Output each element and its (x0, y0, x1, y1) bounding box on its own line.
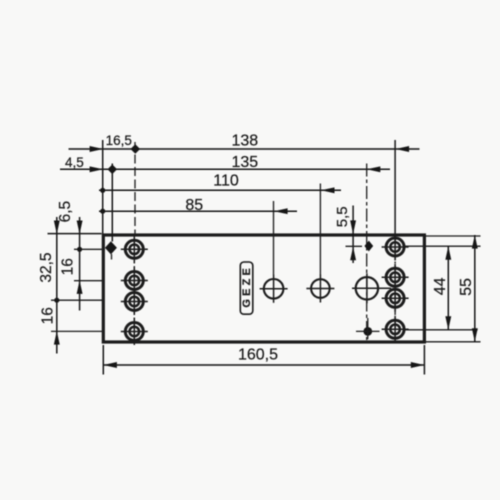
svg-text:85: 85 (185, 197, 203, 214)
dimension 5,5 vertical line x=353.1 (352, 206, 354, 264)
hole L3 (121, 288, 148, 315)
left extension row 3 (y=300.2) (51, 299, 102, 301)
dimension line 44 x=448.3 (447, 246, 449, 330)
arrow down tip row4 on 44 (445, 316, 451, 330)
left extension line plate top (y=233.6) (48, 233, 102, 235)
arrow left at x=395.5 on line 1 (396, 146, 410, 152)
hole R1 (382, 234, 409, 261)
dimension line 1 (16,5 / 138) y=149 (69, 148, 420, 150)
marker diamond hinge axis on line 2 (107, 164, 117, 174)
svg-text:44: 44 (432, 277, 449, 295)
dimension line A (32,5 / 16) x=56.8 (56, 217, 58, 354)
svg-text:16: 16 (59, 258, 76, 275)
extension line circle C1 (x=273.5) (273, 201, 275, 275)
circle C2 (306, 275, 334, 303)
right extension row 1 (y=246.2) (405, 245, 481, 247)
arrow up tip row1 on 44 (445, 246, 451, 260)
circle C3 large (352, 273, 391, 303)
arrow left at x=320.4 on line 3 (321, 187, 335, 193)
hinge diamond left centerline below (111, 254, 113, 260)
extension line hole column right (x=395.1) (394, 140, 396, 234)
marker dot plate edge on line 3 (100, 188, 105, 193)
svg-text:GEZE: GEZE (241, 265, 253, 308)
arrow left at x=273.5 on line 4 (274, 208, 288, 214)
arrow up tip at row4 on line A (54, 331, 60, 345)
arrow left tip at x=103.3 on 160,5 (103, 362, 117, 368)
GEZE logo (240, 262, 253, 314)
dimension line B (6,5 / 16) x=79.6 (79, 217, 81, 311)
right extension plate top (y=236) (426, 235, 481, 237)
arrow right at x=102.7 on line 1 (90, 146, 104, 152)
hole L4 (121, 318, 148, 345)
svg-text:160,5: 160,5 (238, 347, 278, 364)
extension row1 left of diamond R (346, 245, 363, 247)
extension line circle C2 (x=320.4) (319, 184, 321, 276)
arrow down tip at plate top on line A (54, 221, 60, 235)
arrow right tip at x=424.4 on 160,5 (411, 362, 425, 368)
arrow right at x=102.7 on line 2 (90, 166, 104, 172)
svg-text:110: 110 (213, 173, 239, 190)
svg-text:16,5: 16,5 (106, 133, 132, 148)
marker dot plate edge on line 4 (100, 209, 105, 214)
left extension row 4 (y=331.4) (51, 330, 102, 332)
dimension line 3 (110) y=190.3 (99, 189, 341, 191)
centerline hole column 1 (x=135) (134, 142, 136, 234)
arrow down tip at plate top on 5,5 (350, 220, 356, 234)
svg-text:16: 16 (39, 307, 56, 324)
svg-text:135: 135 (231, 154, 258, 171)
arrow up tip at row1 on 5,5 (350, 247, 356, 261)
arrow down tip plate bottom on 55 (472, 328, 478, 342)
bottom extension left edge (x=103.3) (102, 345, 104, 375)
extension line plate left edge (top, x=102.7) (102, 140, 104, 234)
svg-text:138: 138 (231, 133, 258, 150)
hinge diamond left (105, 241, 117, 254)
svg-text:55: 55 (458, 278, 475, 296)
bottom extension right edge (x=424.4) (423, 345, 425, 375)
hole L1 (121, 236, 148, 263)
marker dot row3 on line A (54, 298, 59, 303)
dimension line 2 (4,5 / 135) y=169.3 (60, 168, 390, 170)
dot bottom right column (356, 318, 380, 339)
left extension row 1 (y=249.3) (74, 248, 105, 250)
arrow left at x=366.7 on line 2 (367, 166, 381, 172)
hole R3 (382, 285, 409, 312)
centerline dot column (x=366.7) (366, 164, 368, 341)
arrow up tip at row2 on line B (77, 280, 83, 294)
circle C1 (260, 275, 288, 303)
left extension row 2 (y=280.7) (74, 280, 102, 282)
plate outline (103, 235, 424, 342)
marker diamond hole column 1 on line 1 (130, 144, 140, 154)
right extension row 4 (y=329.8) (404, 329, 478, 331)
svg-text:5,5: 5,5 (334, 206, 351, 227)
centerline hole column right inside plate (394, 238, 396, 338)
arrow down tip at plate top on line B (77, 221, 83, 235)
marker dot row1 on line B (77, 247, 82, 252)
hole R2 (382, 264, 409, 291)
extension line hinge axis (x=112.3) (111, 164, 113, 242)
centerline hole column 1 inside plate (133, 238, 135, 340)
svg-text:6,5: 6,5 (57, 201, 74, 223)
svg-text:4,5: 4,5 (65, 155, 84, 170)
right extension plate bottom (y=341.8) (426, 341, 481, 343)
dimension line 160,5 y=365 (103, 364, 424, 366)
diamond marker right (top) (364, 241, 373, 252)
svg-text:32,5: 32,5 (38, 253, 55, 283)
hole R4 (382, 316, 409, 343)
dimension line 55 x=474.8 (474, 235, 476, 342)
dimension line 4 (85) y=211.2 (99, 210, 297, 212)
arrow up tip plate top on 55 (472, 235, 478, 249)
hole L2 (121, 267, 148, 294)
